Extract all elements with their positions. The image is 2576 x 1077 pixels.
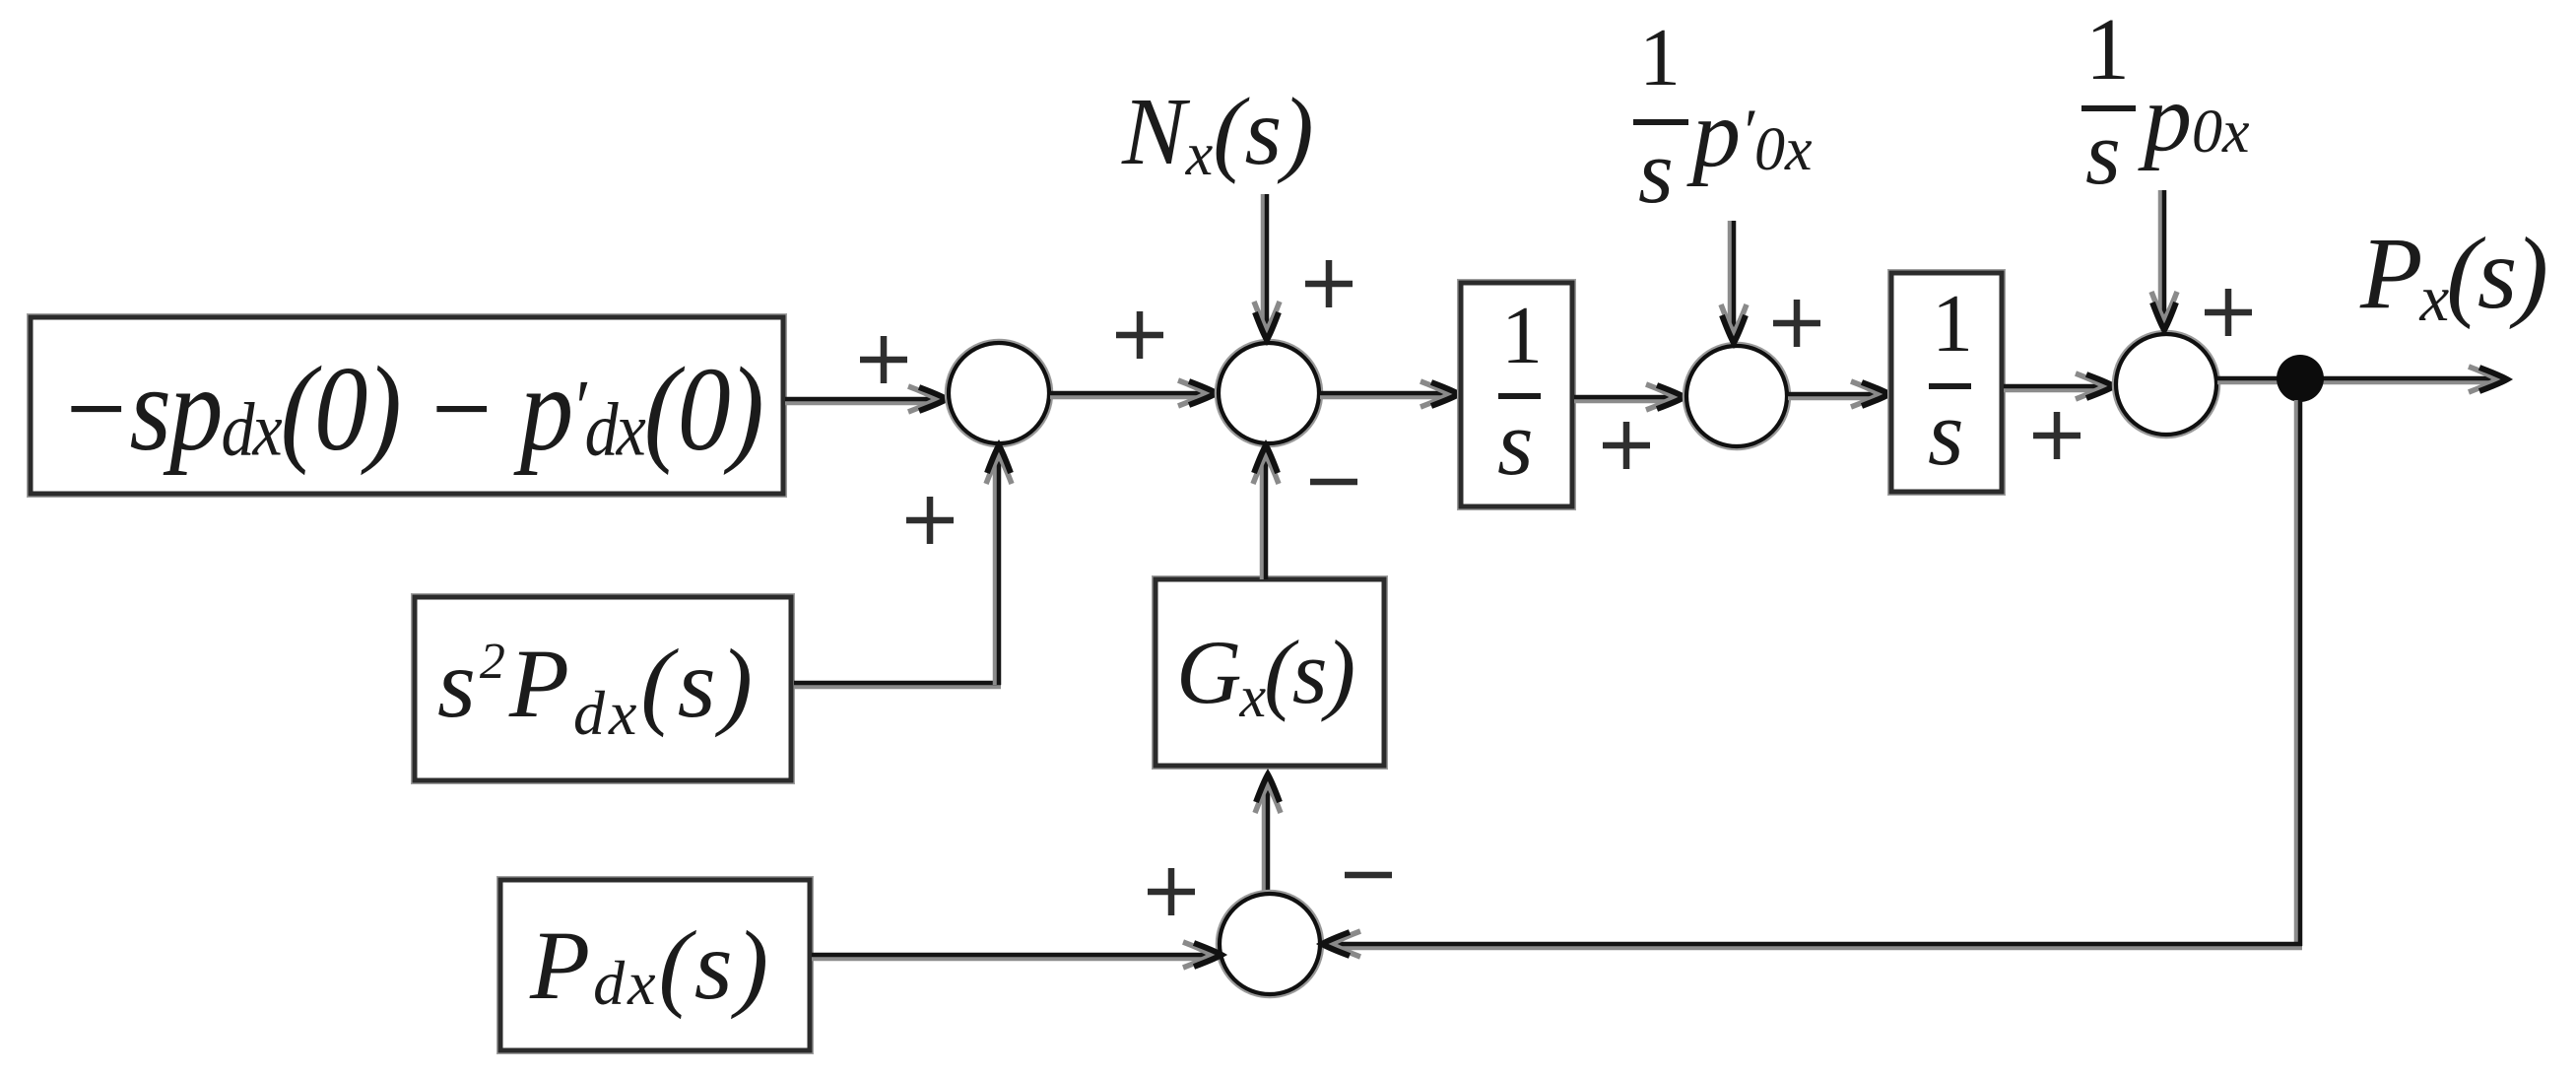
svg-text:1: 1 (1639, 12, 1681, 103)
wire: integrator 2 to S4 (2004, 373, 2114, 399)
svg-text:s: s (1638, 121, 1674, 222)
wire: S5 up into G_x(s) bottom (1255, 774, 1281, 893)
svg-text:1: 1 (1501, 290, 1543, 381)
block: G_x(s) (1156, 579, 1384, 766)
label: (1/s) p_0x (2081, 1, 2250, 203)
wire: S2 to integrator 1 (1320, 381, 1459, 407)
plus sign: into S2 left (1116, 311, 1163, 359)
wire: S1 to S2 (1050, 380, 1217, 406)
plus sign: p'_0x input into S3 (1773, 300, 1820, 347)
svg-text:s: s (1497, 392, 1534, 495)
block: s^2 P_dx(s) (415, 597, 791, 780)
block: P_dx(s) (500, 880, 810, 1050)
wire: N_x(s) down into S2 top (1254, 194, 1280, 340)
wire: G_x(s) up into S2 bottom (1253, 445, 1279, 579)
svg-text:1: 1 (1932, 278, 1973, 370)
svg-text:Nx(s): Nx(s) (1121, 79, 1314, 188)
summer S2 (1217, 341, 1321, 445)
svg-text:−spdx(0) − p′dx(0): −spdx(0) − p′dx(0) (59, 342, 762, 477)
plus sign: into S3 left (1603, 422, 1650, 469)
wire: s^2 P_dx(s) up into S1 bottom (794, 445, 1012, 687)
block: initial-condition source -sp_dx(0) - p'_dx(0) (31, 317, 783, 494)
summer S1 (947, 341, 1051, 445)
wire: box1 output to summer S1 (785, 386, 947, 412)
wire: integrator 1 to S3 (1574, 384, 1684, 410)
wire: (1/s)p'_0x down into S3 top (1721, 221, 1747, 343)
svg-text:Gx(s): Gx(s) (1176, 622, 1354, 729)
minus sign: feedback input into S5 (1345, 872, 1392, 879)
block: integrator 1/s (second) (1891, 273, 2002, 492)
summer S5 (1218, 892, 1322, 996)
summer S3 (1684, 344, 1789, 448)
svg-text:s: s (2085, 102, 2121, 203)
svg-text:Px(s): Px(s) (2359, 217, 2545, 335)
plus sign: into S1 left (860, 336, 907, 383)
label: (1/s) p'_0x (1633, 12, 1813, 222)
summer S4 (2114, 332, 2218, 437)
block: integrator 1/s (first) (1461, 283, 1572, 506)
wire: S3 to integrator 2 (1788, 381, 1889, 407)
plus sign: p_0x input into S4 (2205, 289, 2252, 336)
wire: S4 to output with takeoff node (2217, 367, 2507, 392)
svg-text:1: 1 (2085, 1, 2130, 99)
svg-text:s: s (1928, 382, 1964, 485)
plus sign: P_dx input into S5 (1148, 868, 1195, 915)
plus sign: s^2 P_dx input into S1 (906, 497, 954, 544)
minus sign: G_x input into S2 (1310, 479, 1357, 486)
wire: (1/s)p_0x down into S4 top (2151, 190, 2177, 330)
node: takeoff point (2277, 355, 2324, 402)
plus sign: into S4 left (2033, 412, 2081, 459)
plus sign: N input into S2 (1305, 260, 1353, 307)
wire: feedback from node down and left into S5 right (1322, 400, 2302, 957)
wire: P_dx(s) to S5 left (812, 942, 1222, 968)
